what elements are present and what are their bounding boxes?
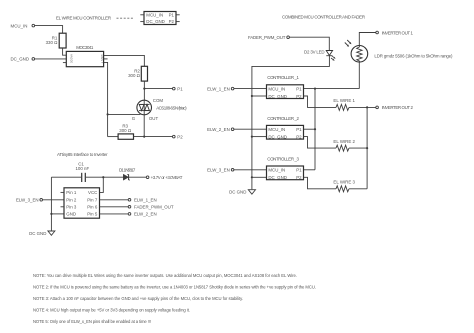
resistor EL WIRE 2 bbox=[333, 139, 355, 151]
svg-text:COMBINED MCU CONTROLLER AND FA: COMBINED MCU CONTROLLER AND FADER bbox=[282, 15, 365, 20]
wire D1 to supply node bbox=[129, 176, 147, 178]
LDR R4 bbox=[345, 40, 453, 62]
svg-text:GND: GND bbox=[66, 212, 76, 217]
svg-text:ELW_1_EN: ELW_1_EN bbox=[134, 198, 157, 203]
svg-text:DC_GND: DC_GND bbox=[268, 175, 287, 180]
junction VCC tap bbox=[102, 176, 104, 178]
wire ELW_1_EN to ctrl1 bbox=[234, 88, 267, 90]
svg-text:DC_GND: DC_GND bbox=[268, 134, 287, 139]
wire MCU_IN to R1 bbox=[35, 26, 63, 34]
gate wire bbox=[108, 113, 141, 115]
resistor R1 330 ohm bbox=[46, 33, 67, 48]
svg-text:Pin 1: Pin 1 bbox=[66, 190, 77, 195]
svg-text:VCC: VCC bbox=[88, 190, 97, 195]
resistor EL WIRE 3 bbox=[333, 180, 355, 192]
wire Pin 7 to ELW_1_EN bbox=[100, 199, 129, 201]
wire ctrl3 P2 to EL WIRE 3 bbox=[304, 177, 337, 189]
svg-text:MAIN T: MAIN T bbox=[100, 55, 103, 64]
svg-text:MCU_IN: MCU_IN bbox=[268, 168, 285, 173]
wire ctrl2 P1 to bus bbox=[304, 128, 316, 130]
svg-text:D1 1N5817: D1 1N5817 bbox=[119, 167, 136, 172]
junction gate bbox=[107, 113, 109, 115]
EL bus vertical bbox=[366, 107, 368, 188]
junction P1 bus top bbox=[314, 88, 316, 90]
svg-text:Pin 3: Pin 3 bbox=[66, 205, 77, 210]
svg-text:NOTE 3: Attach a 100 nF capaci: NOTE 3: Attach a 100 nF capacitor betwee… bbox=[33, 296, 243, 301]
ground DC GND (bottom) bbox=[29, 231, 55, 236]
wire triac OUT down bbox=[143, 115, 145, 137]
svg-text:ANODE: ANODE bbox=[69, 54, 72, 63]
svg-text:+3.7V or +3.0VBAT: +3.7V or +3.0VBAT bbox=[151, 175, 183, 180]
wire Pin 6 to FADER_PWM_OUT bbox=[100, 206, 129, 208]
wire to node P1 bbox=[144, 88, 172, 90]
node P1 bbox=[173, 86, 184, 91]
svg-text:DC GND: DC GND bbox=[29, 231, 46, 236]
svg-text:ACS108-6SN (triac): ACS108-6SN (triac) bbox=[156, 105, 187, 110]
svg-text:Pin 2: Pin 2 bbox=[66, 198, 77, 203]
svg-text:COM: COM bbox=[153, 98, 164, 103]
wire ctrl3 P1 to bus bbox=[304, 169, 316, 171]
wire DC bus to ctrl3 bbox=[252, 176, 267, 178]
wire ELW_2_EN to ctrl2 bbox=[234, 128, 267, 130]
wire DC bus to ctrl2 bbox=[252, 136, 267, 138]
wire DC_GND to MOC pin2 bbox=[35, 58, 67, 60]
wire R2 to P1 junction bbox=[143, 81, 145, 89]
svg-text:MOC3041: MOC3041 bbox=[76, 45, 94, 50]
MOC pin5 stub bbox=[104, 58, 108, 60]
junction EL bus top bbox=[366, 106, 368, 108]
resistor EL WIRE 1 bbox=[333, 98, 355, 110]
svg-text:Pin 7: Pin 7 bbox=[87, 198, 98, 203]
wire EL WIRE 3 to EL bus bbox=[349, 188, 367, 190]
controller U3 CONTROLLER _1 bbox=[267, 75, 304, 99]
LED D2 3V bbox=[304, 50, 336, 61]
node FADER_PWM_OUT (bottom) bbox=[128, 205, 174, 210]
wire MOC pin4 down bbox=[104, 62, 108, 136]
wire ELW_3_EN to ctrl3 bbox=[234, 169, 267, 171]
svg-text:NOTE 2: If the MCU is powered: NOTE 2: If the MCU is powered using the … bbox=[33, 284, 316, 289]
wire MOC pin6 to R2 bbox=[104, 55, 145, 66]
svg-text:ELW_1_EN: ELW_1_EN bbox=[207, 86, 230, 91]
svg-text:P2: P2 bbox=[296, 175, 302, 180]
svg-text:EL WIRE 2: EL WIRE 2 bbox=[333, 139, 355, 144]
resistor R2 300 ohm bbox=[128, 66, 147, 81]
svg-text:D2 3V LED: D2 3V LED bbox=[304, 50, 325, 55]
node ELW_1_EN (bottom) bbox=[128, 198, 156, 203]
wire junction to triac COM bbox=[143, 89, 145, 101]
svg-text:P2: P2 bbox=[169, 19, 175, 24]
connector J1 (MCU_IN / DC_GND header box) bbox=[144, 12, 176, 25]
node FADER_PWM_OUT bbox=[248, 35, 289, 40]
svg-text:ELW_3_EN: ELW_3_EN bbox=[207, 168, 230, 173]
svg-text:P1: P1 bbox=[296, 86, 302, 91]
svg-text:EL WIRE 1: EL WIRE 1 bbox=[333, 98, 355, 103]
diode D1 1N5817 bbox=[119, 167, 136, 180]
node INVERTER OUT 1 bbox=[376, 30, 414, 35]
wire INVERTER OUT 1 to LDR bbox=[359, 33, 376, 46]
wire ctrl2 P2 to EL WIRE 2 bbox=[304, 137, 337, 149]
node ELW_2_EN bbox=[207, 127, 234, 132]
wire controller1 P1 row bbox=[304, 88, 360, 90]
wire down to ground bbox=[50, 214, 52, 231]
node P2 bbox=[173, 134, 184, 139]
svg-text:P1: P1 bbox=[296, 127, 302, 132]
svg-text:ELW_3_EN: ELW_3_EN bbox=[16, 198, 39, 203]
svg-text:330 Ω: 330 Ω bbox=[46, 40, 59, 45]
node ELW_3_EN bbox=[207, 168, 234, 173]
resistor R3 300 ohm bbox=[118, 123, 133, 139]
junction EL bus mid bbox=[366, 147, 368, 149]
ground DC GND (right section) bbox=[229, 189, 255, 194]
svg-text:P1: P1 bbox=[296, 168, 302, 173]
wire FADER node to LED bbox=[289, 37, 329, 50]
capacitor C1 100 nF bbox=[75, 162, 89, 182]
junction GND row bbox=[50, 213, 52, 215]
wire DC bus to ctrl1 bbox=[252, 95, 267, 97]
svg-text:ATtiny85 Interface to Inverter: ATtiny85 Interface to Inverter bbox=[57, 152, 108, 157]
wire left rail down to GND row bbox=[50, 177, 52, 214]
node +3.7V bbox=[146, 175, 182, 180]
svg-text:EL WIRE 3: EL WIRE 3 bbox=[333, 180, 355, 185]
svg-text:DC_GND: DC_GND bbox=[146, 19, 165, 24]
svg-text:FADER_PWM_OUT: FADER_PWM_OUT bbox=[134, 205, 174, 210]
svg-text:NOTE: You can drive multiple E: NOTE: You can drive multiple EL Wires us… bbox=[33, 273, 297, 278]
svg-text:100 nF: 100 nF bbox=[75, 166, 89, 171]
node INVERTER OUT 2 bbox=[376, 105, 414, 110]
optocoupler U1 MOC3041 bbox=[66, 45, 103, 67]
pin 1 stub bbox=[61, 191, 65, 193]
svg-text:CONTROLLER _1: CONTROLLER _1 bbox=[267, 75, 299, 80]
svg-text:MCU_IN: MCU_IN bbox=[268, 127, 285, 132]
triac Q1 ACS108-6SN bbox=[132, 98, 187, 121]
wire R1 to MOC pin1 bbox=[63, 48, 67, 55]
wire Pin 5 to ELW_2_EN bbox=[100, 213, 129, 215]
junction DC bus ctrl1 bbox=[251, 95, 253, 97]
MOC pin3 stub bbox=[63, 62, 66, 64]
svg-text:G: G bbox=[132, 116, 136, 121]
node MCU_IN bbox=[11, 23, 35, 28]
junction DC bus ctrl3 bbox=[251, 176, 253, 178]
wire to GND pin bbox=[51, 213, 64, 215]
svg-text:MCU_IN: MCU_IN bbox=[11, 23, 28, 28]
svg-text:INVERTER OUT 1: INVERTER OUT 1 bbox=[382, 30, 414, 35]
svg-text:DC GND: DC GND bbox=[229, 189, 246, 194]
svg-text:P1: P1 bbox=[177, 86, 183, 91]
svg-text:300 Ω: 300 Ω bbox=[128, 73, 141, 78]
connector J1 pins bbox=[140, 15, 179, 22]
dashed legend line bbox=[117, 17, 134, 19]
wire R3 to P2 bbox=[134, 136, 173, 138]
wire LDR to P1 bus bbox=[358, 62, 360, 89]
junction at R2/triac/P1 bbox=[143, 88, 145, 90]
svg-text:OUT: OUT bbox=[149, 116, 159, 121]
svg-text:ELW_2_EN: ELW_2_EN bbox=[207, 127, 230, 132]
node ELW_1_EN bbox=[207, 86, 234, 91]
svg-text:DC_GND: DC_GND bbox=[10, 57, 29, 62]
wire ELW_3_EN to Pin 2 bbox=[43, 199, 65, 201]
svg-text:P2: P2 bbox=[296, 134, 302, 139]
svg-text:DC_GND: DC_GND bbox=[268, 94, 287, 99]
controller U5 CONTROLLER _3 bbox=[267, 156, 304, 180]
wire ctrl1 P2 to EL WIRE 1 bbox=[304, 96, 337, 107]
junction P1 bus ctrl2 bbox=[314, 128, 316, 130]
junction OUT/R3/P2 bbox=[143, 136, 145, 138]
svg-text:P2: P2 bbox=[177, 134, 183, 139]
P1 bus vertical bbox=[314, 89, 316, 170]
MCU U6 ATtiny85 bbox=[64, 188, 100, 218]
svg-text:MCU_IN: MCU_IN bbox=[146, 13, 163, 18]
svg-text:MCU_IN: MCU_IN bbox=[268, 86, 285, 91]
svg-text:CONTROLLER _2: CONTROLLER _2 bbox=[267, 116, 299, 121]
junction DC bus ctrl2 bbox=[251, 136, 253, 138]
svg-text:FADER_PWM_OUT: FADER_PWM_OUT bbox=[248, 35, 286, 40]
wire left rail to C1 bbox=[51, 176, 81, 178]
controller U4 CONTROLLER _2 bbox=[267, 116, 304, 140]
node DC_GND bbox=[10, 57, 34, 62]
svg-text:CONTROLLER _3: CONTROLLER _3 bbox=[267, 156, 299, 161]
svg-text:ELW_2_EN: ELW_2_EN bbox=[134, 212, 157, 217]
svg-text:NOTE 4: MCU high output may be: NOTE 4: MCU high output may be +5V or 3V… bbox=[33, 307, 190, 312]
svg-text:EL WIRE MCU CONTROLLER: EL WIRE MCU CONTROLLER bbox=[56, 16, 111, 21]
svg-text:P2: P2 bbox=[296, 94, 302, 99]
pin 3 stub bbox=[61, 206, 65, 208]
wire C1 to D1 bbox=[86, 176, 124, 178]
svg-text:P1: P1 bbox=[169, 13, 175, 18]
wire LED to DC bus bbox=[252, 56, 330, 190]
wire VCC tap to VCC pin bbox=[100, 177, 104, 192]
wire EL WIRE 2 to EL bus bbox=[349, 147, 367, 149]
svg-text:NOTE 5: Only one of ELW_x_EN p: NOTE 5: Only one of ELW_x_EN pins shall … bbox=[33, 319, 151, 324]
node ELW_2_EN (bottom) bbox=[128, 212, 156, 217]
node ELW_3_EN (bottom) bbox=[16, 198, 43, 203]
svg-text:Pin 6: Pin 6 bbox=[87, 205, 98, 210]
wire EL WIRE 1 to INVERTER OUT 2 bbox=[349, 106, 376, 108]
wire into R3 bbox=[108, 136, 119, 138]
svg-text:LDR gmdz 5506 (1kOhm to 5kOhm: LDR gmdz 5506 (1kOhm to 5kOhm range) bbox=[374, 53, 453, 58]
svg-text:300 Ω: 300 Ω bbox=[119, 128, 132, 133]
svg-text:Pin 5: Pin 5 bbox=[87, 212, 98, 217]
svg-text:INVERTER OUT 2: INVERTER OUT 2 bbox=[382, 105, 414, 110]
